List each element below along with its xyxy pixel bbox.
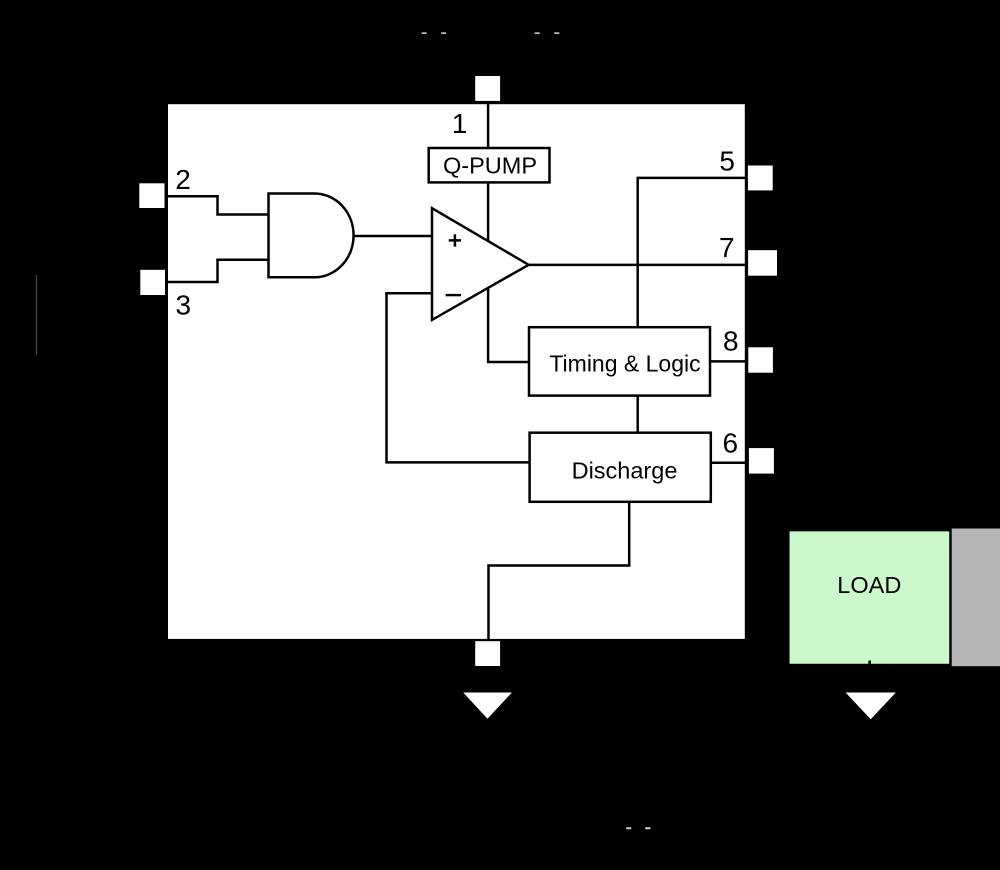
pin 8 pad — [748, 347, 773, 372]
faint vertical line left — [36, 275, 37, 354]
wire AND gate output to comparator plus input — [354, 235, 432, 238]
wire pin 2 to AND gate input A — [165, 196, 269, 214]
AND gate U2 — [269, 194, 354, 278]
ground symbol under GND pin — [463, 693, 512, 719]
Timing & Logic block — [529, 327, 710, 395]
faint dash top 4 — [554, 32, 559, 34]
pin 7 pad — [748, 250, 777, 276]
pin 3 pad — [140, 270, 165, 295]
comparator U3 — [432, 208, 529, 320]
svg-text:Timing & Logic: Timing & Logic — [549, 351, 700, 377]
wire pin 5 line to Timing & Logic — [638, 178, 749, 327]
wire pin 3 to AND gate input B — [165, 260, 269, 282]
ground symbol under LOAD — [846, 693, 896, 720]
svg-text:LOAD: LOAD — [837, 572, 901, 598]
svg-text:8: 8 — [723, 326, 739, 357]
pin 5 pad — [748, 166, 773, 191]
wire feedback from comparator minus input to Discharge — [387, 293, 530, 462]
faint dash bottom 2 — [645, 827, 650, 829]
charge pump block Q-PUMP — [429, 148, 550, 182]
svg-text:Q-PUMP: Q-PUMP — [443, 153, 537, 179]
svg-text:2: 2 — [175, 164, 191, 195]
load RL box — [788, 530, 950, 665]
wire Discharge to pin 6 — [711, 462, 749, 465]
svg-text:7: 7 — [719, 232, 735, 263]
pin 1 wire (VDD to Timing & Logic) — [488, 101, 529, 362]
svg-text:Discharge: Discharge — [572, 457, 678, 483]
IC body U1 — [167, 103, 746, 640]
svg-text:6: 6 — [723, 428, 739, 459]
bottom GND pin pad — [475, 641, 500, 666]
pin 2 pad — [139, 183, 164, 208]
svg-text:5: 5 — [719, 146, 735, 177]
faint dash bottom 1 — [626, 827, 631, 829]
svg-text:3: 3 — [176, 290, 192, 321]
wire Discharge to bottom GND pin — [489, 502, 630, 641]
wire Timing & Logic to Discharge — [636, 396, 639, 433]
plus sign — [449, 234, 461, 246]
faint dash top 1 — [422, 32, 427, 34]
wire stub LOAD to ground — [868, 661, 871, 667]
gray box at right edge — [952, 529, 1000, 667]
Discharge block — [530, 433, 711, 502]
faint dash top 2 — [441, 32, 446, 34]
faint dash top 3 — [535, 32, 540, 34]
wire Timing & Logic to pin 8 — [710, 360, 749, 363]
wire comparator output to pin 7 — [529, 264, 749, 267]
pin 6 pad — [749, 448, 774, 474]
svg-text:1: 1 — [452, 108, 468, 139]
pin 1 pad — [475, 76, 500, 101]
minus sign — [446, 294, 462, 296]
